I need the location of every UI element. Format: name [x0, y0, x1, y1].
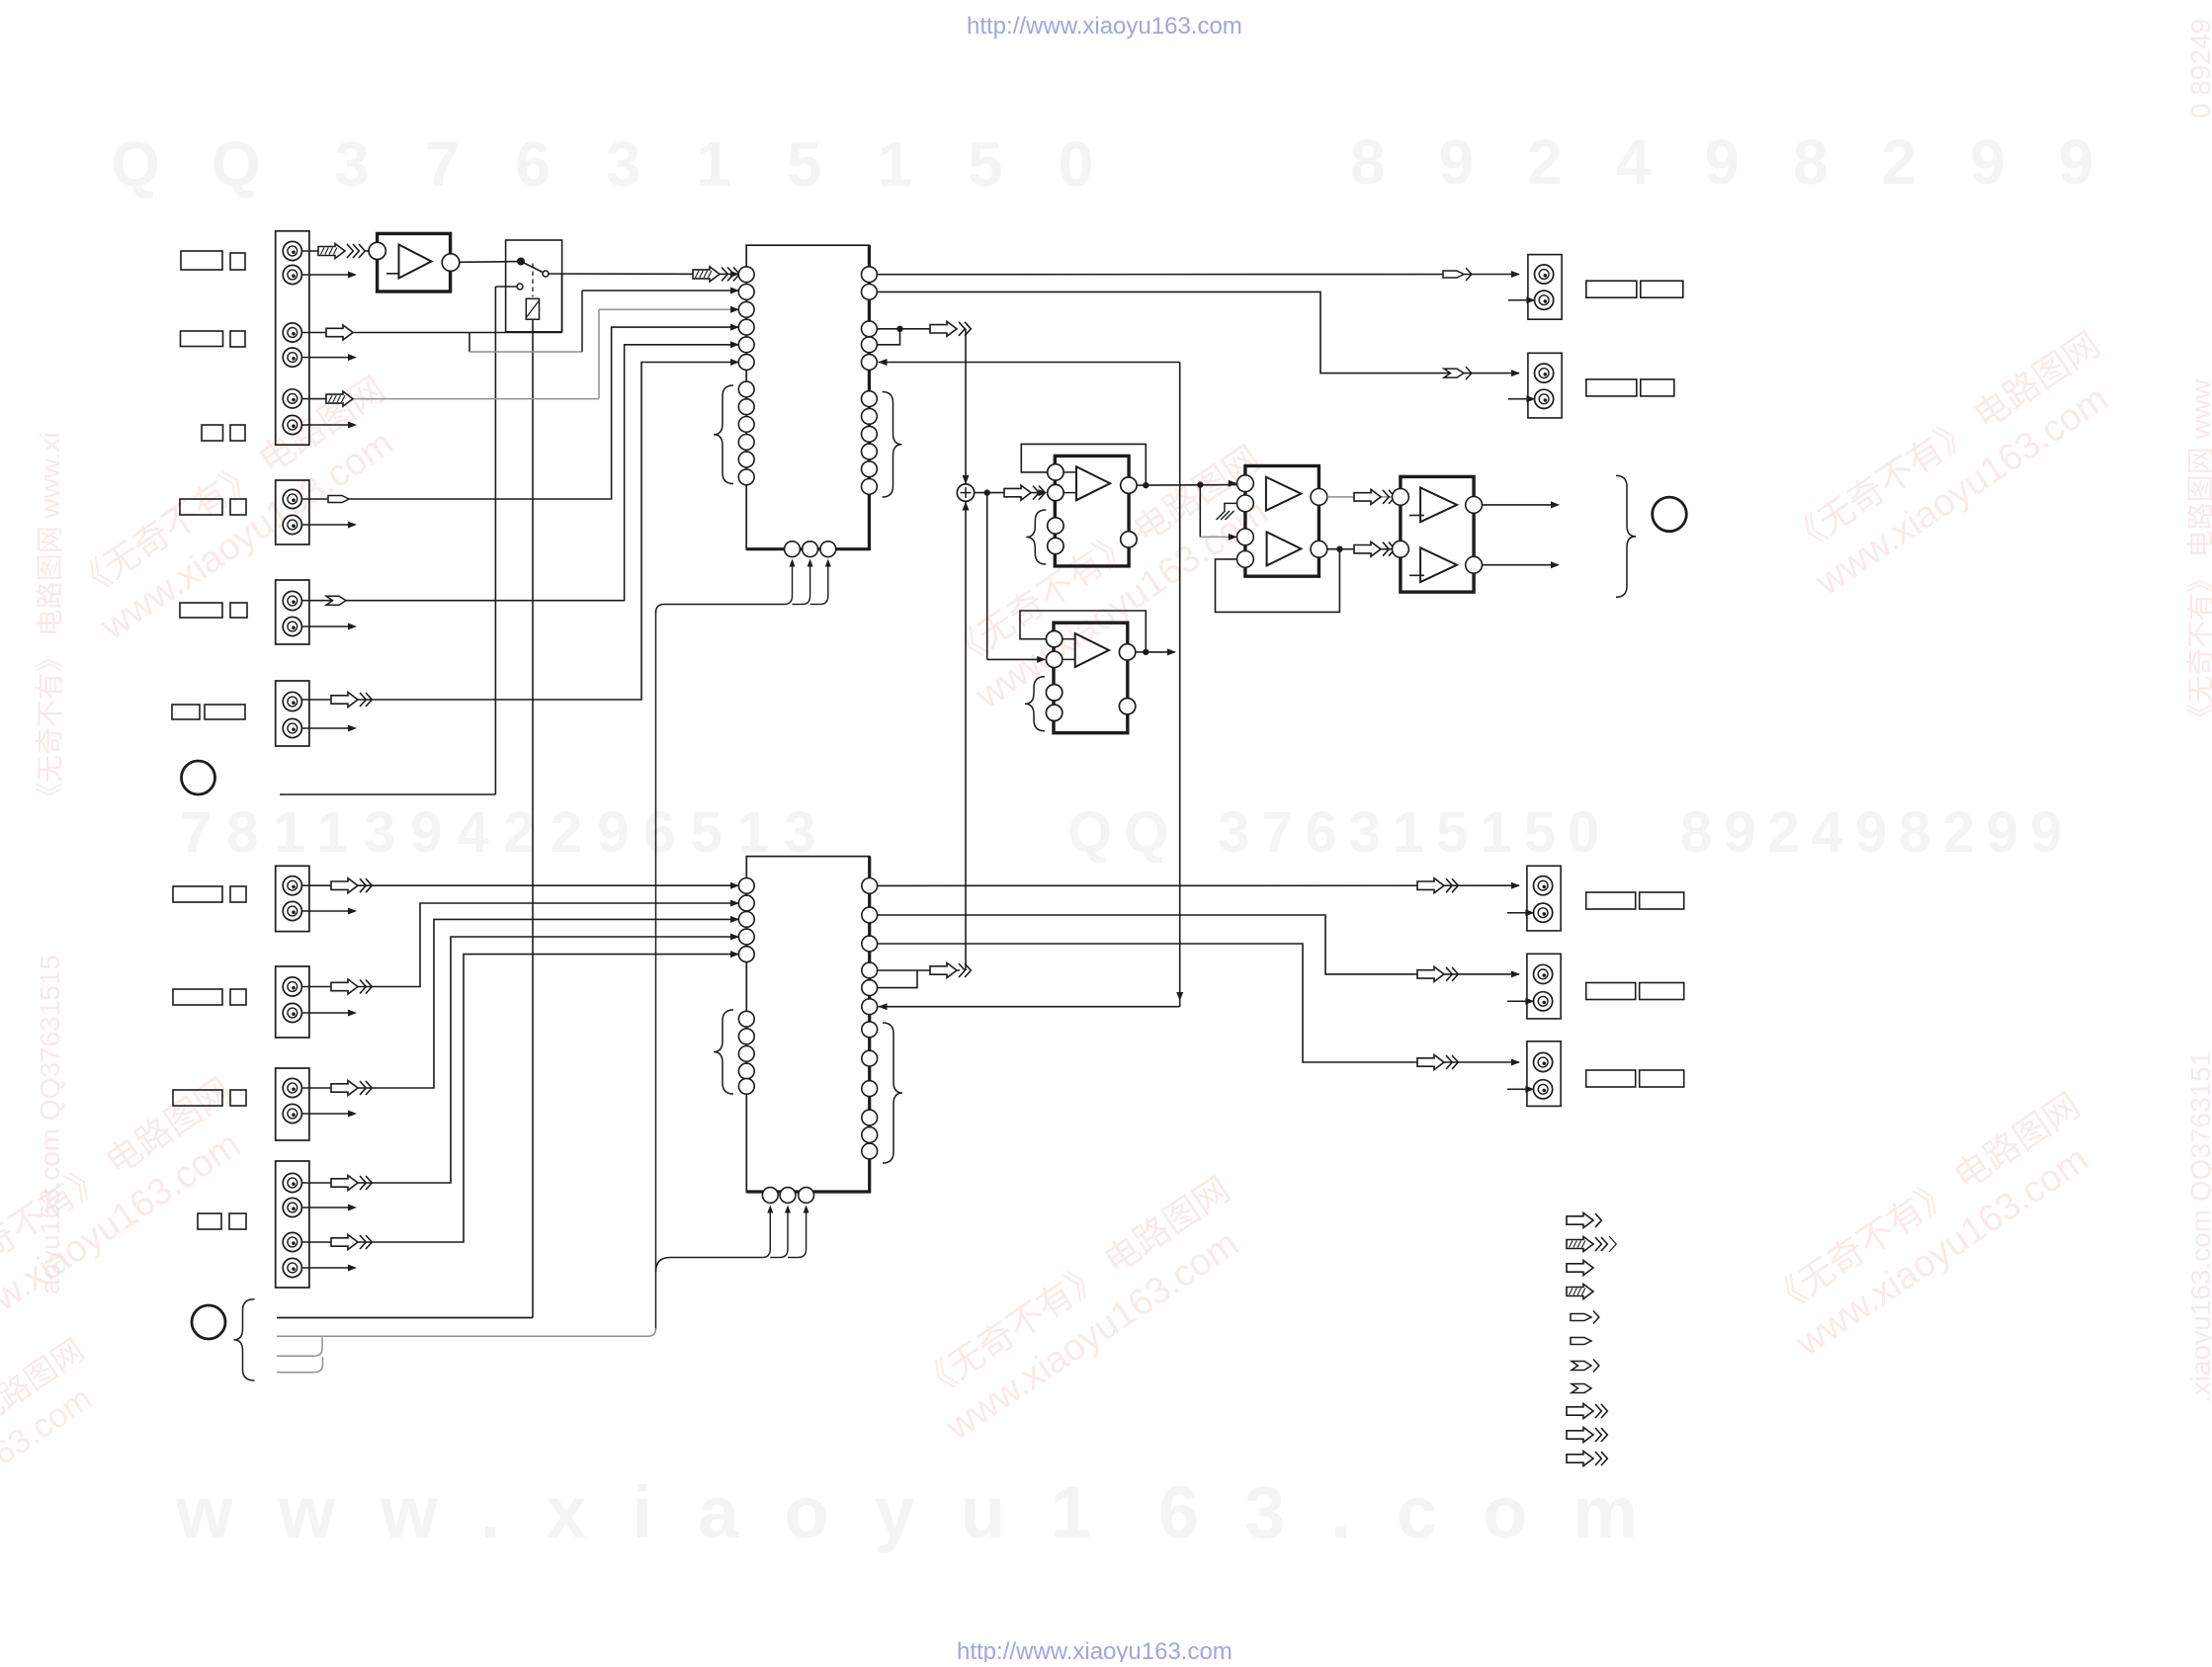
svg-text:http://www.xiaoyu163.com: http://www.xiaoyu163.com: [957, 1638, 1233, 1662]
svg-text:《无奇不有》 电路图网 www: 《无奇不有》 电路图网 www: [2185, 378, 2212, 731]
svg-text:892498299: 892498299: [1350, 126, 2147, 198]
svg-text:aoyu163.com QQ37631515: aoyu163.com QQ37631515: [35, 955, 65, 1294]
svg-text:.xiaoyu163.com QQ3763151: .xiaoyu163.com QQ3763151: [2185, 1051, 2212, 1403]
svg-text:www.xiaoyu1: www.xiaoyu1: [175, 1471, 1137, 1553]
svg-text:63.com: 63.com: [1158, 1471, 1683, 1553]
svg-text:QQ: QQ: [1067, 800, 1180, 865]
svg-text:376315150: 376315150: [334, 128, 1149, 200]
svg-text:892498299: 892498299: [1680, 800, 2074, 865]
svg-text:QQ: QQ: [111, 128, 312, 200]
svg-text:376315150: 376315150: [1218, 800, 1611, 865]
svg-text:0 89249: 0 89249: [2185, 19, 2212, 119]
svg-text:http://www.xiaoyu163.com: http://www.xiaoyu163.com: [967, 13, 1242, 40]
svg-text:78113942296513: 78113942296513: [180, 800, 830, 865]
svg-text:《无奇不有》 电路图网 www.xi: 《无奇不有》 电路图网 www.xi: [35, 432, 65, 810]
